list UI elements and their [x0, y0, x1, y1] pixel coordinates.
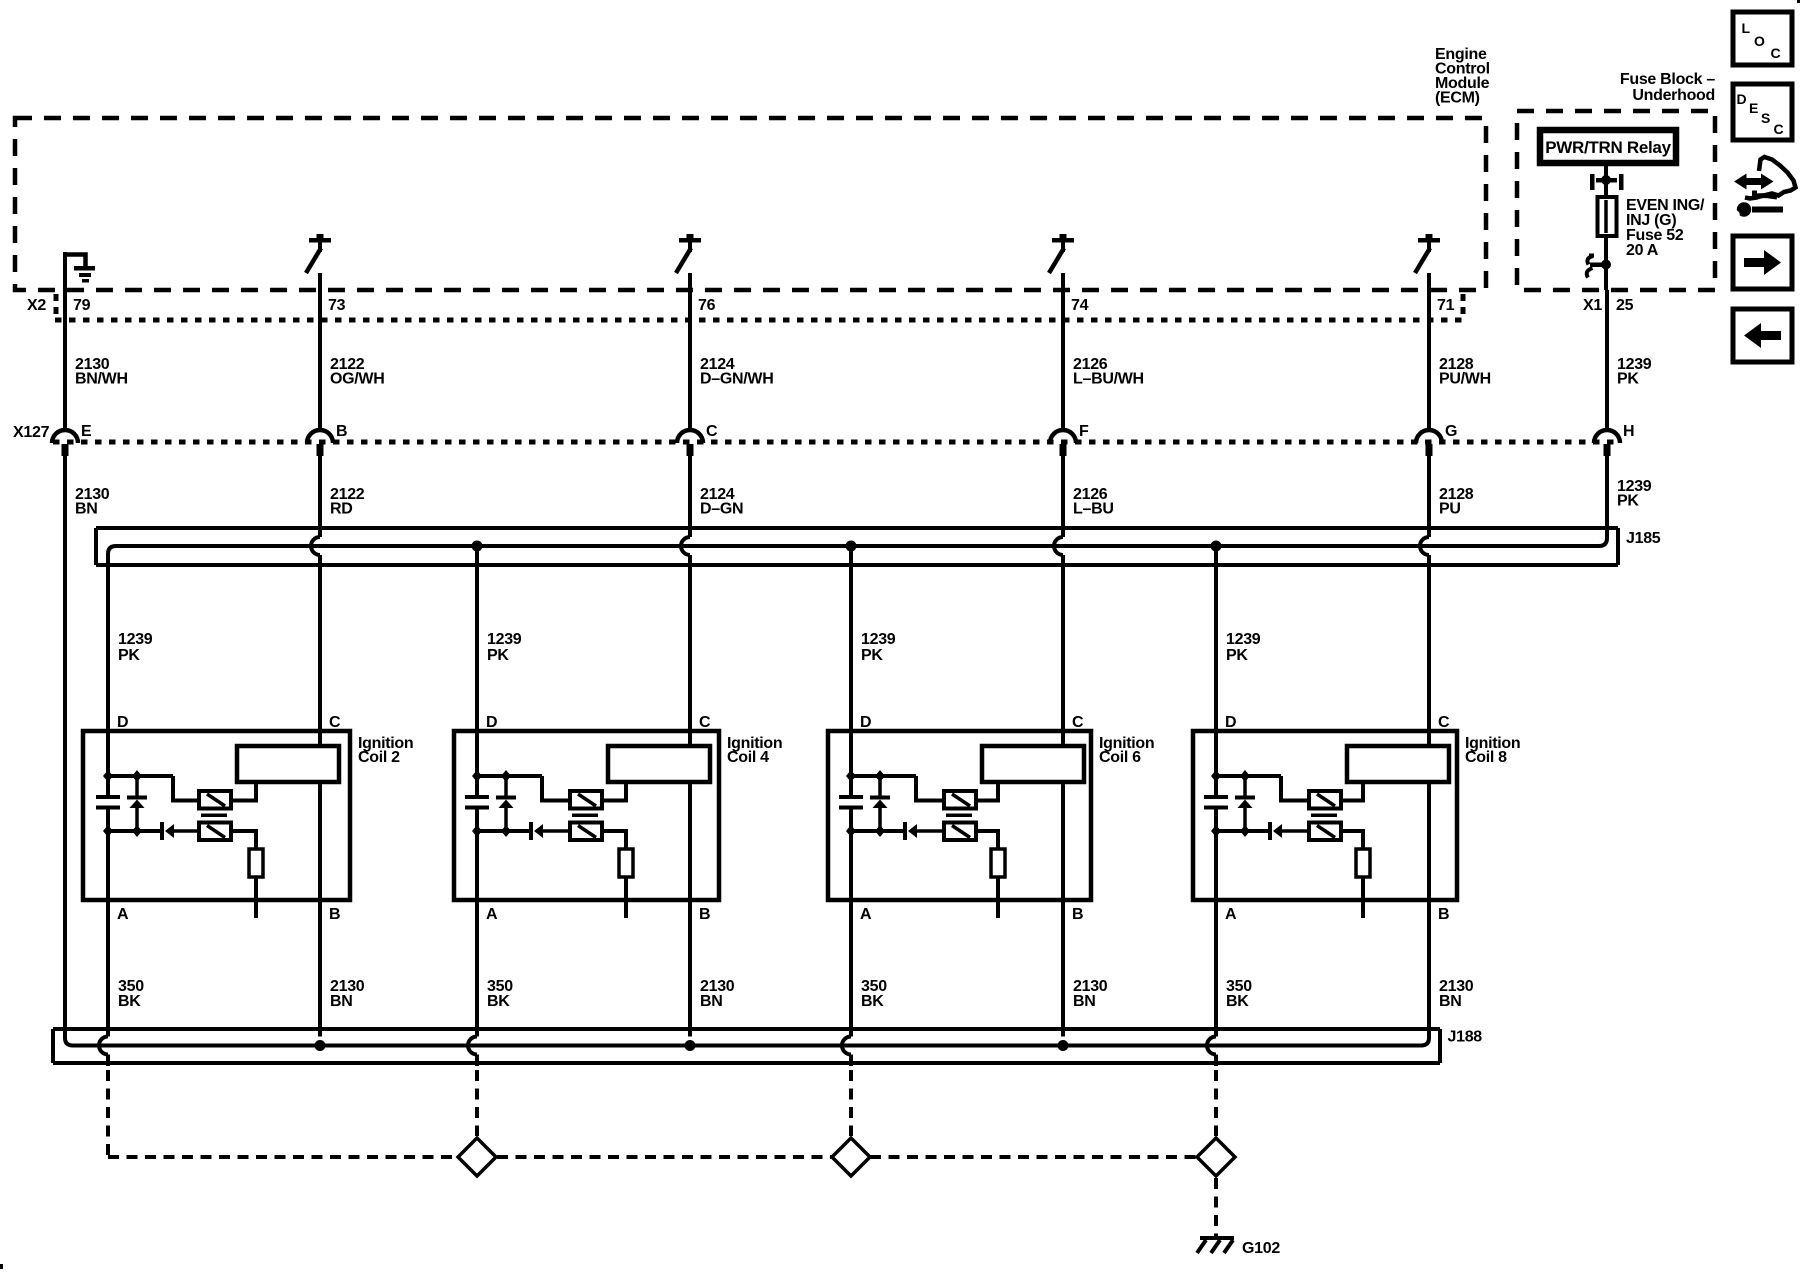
coil 2 upper winding output to primary: [231, 782, 256, 801]
connector X127 dotted line: [53, 440, 1617, 445]
wire (circuit to connector X127), x=1429: [1427, 273, 1431, 431]
coil 8 primary winding: [1347, 746, 1449, 782]
svg-text:C: C: [1774, 121, 1784, 137]
svg-text:J185: J185: [1626, 530, 1661, 547]
svg-text:BN: BN: [1439, 993, 1462, 1010]
svg-text:E: E: [1749, 100, 1758, 116]
coil 8 resistor: [1356, 849, 1370, 877]
coil 4 diode: [529, 822, 533, 840]
dashed wire between splices S1-S2: [497, 1155, 832, 1159]
coil 2 high voltage output stub: [254, 877, 258, 918]
svg-text:B: B: [336, 423, 347, 440]
icon box DESC: [1733, 84, 1792, 140]
svg-text:1239: 1239: [1226, 631, 1261, 648]
svg-text:PK: PK: [861, 647, 883, 664]
coil 6 capacitor: [849, 776, 853, 797]
ECM internal ground (pin 79): [65, 255, 95, 283]
coil 2 lower winding output to resistor: [231, 831, 256, 849]
wire (circuit to connector X127), x=320: [318, 273, 322, 431]
X127 pin B: [307, 423, 347, 456]
coil 2 driver transformer lower winding: [199, 823, 231, 841]
coil 4 capacitor: [475, 776, 479, 797]
coil 8 internal node row 1: [1216, 774, 1281, 778]
wire 1239 PK from J185 to coil 6 pin D: [849, 546, 853, 776]
X127 pin E: [52, 423, 92, 456]
relay output bracket: [1590, 163, 1624, 196]
wire hop over J188 bus at x=1216: [1207, 1037, 1216, 1055]
dashed 350 BK wire from coil 2 pin A: [106, 1070, 110, 1155]
X2 / X1 pin labels: [27, 297, 1634, 314]
svg-text:D: D: [486, 714, 497, 731]
svg-text:PK: PK: [487, 647, 509, 664]
wire (circuit to connector X127), x=690: [688, 273, 692, 431]
wire segment through J188 bottom at x=1216: [1214, 1055, 1218, 1067]
svg-text:OG/WH: OG/WH: [330, 371, 385, 388]
coil 6 upper winding output to primary: [976, 782, 998, 801]
svg-text:20 A: 20 A: [1626, 242, 1659, 259]
dashed wire between splices S2-S3: [870, 1155, 1197, 1159]
coil 4 lower winding output to resistor: [602, 831, 626, 849]
svg-text:79: 79: [73, 297, 91, 314]
svg-text:G: G: [1445, 423, 1457, 440]
wire from J185 hop to coil 4 pin C: [688, 555, 692, 748]
splice junction J185 at x=1216: [1211, 541, 1222, 552]
coil 8 box: [1193, 731, 1457, 900]
coil 2 transformer core: [201, 814, 227, 818]
ECM label: [1435, 46, 1490, 107]
svg-text:PU: PU: [1439, 501, 1461, 518]
Fuse Block - Underhood dashed box: [1517, 111, 1715, 290]
fuse EVEN ING/INJ (G) Fuse 52 20A: [1598, 196, 1617, 258]
svg-text:PK: PK: [1617, 493, 1639, 510]
splice junction J188 at x=1063: [1058, 1040, 1069, 1051]
svg-text:PWR/TRN Relay: PWR/TRN Relay: [1545, 138, 1671, 157]
icon box LOC: [1733, 12, 1792, 65]
svg-text:BK: BK: [487, 993, 510, 1010]
svg-text:PK: PK: [1226, 647, 1248, 664]
svg-text:G102: G102: [1242, 1240, 1280, 1257]
svg-text:Coil 4: Coil 4: [727, 749, 769, 766]
wire from J185 hop to coil 6 pin C: [1061, 555, 1065, 748]
coil 8 lower winding output to resistor: [1341, 831, 1363, 849]
wire 350 BK coil 4 pin A to J188 hop: [475, 831, 479, 1037]
svg-text:Underhood: Underhood: [1632, 87, 1715, 104]
svg-text:BN/WH: BN/WH: [75, 371, 128, 388]
wire 1239 PK from J185 to coil 4 pin D: [475, 546, 479, 776]
wire hop over J188 bus at x=108: [99, 1037, 108, 1055]
Engine Control Module (ECM) dashed box: [15, 118, 1486, 290]
svg-text:PK: PK: [118, 647, 140, 664]
svg-text:Fuse Block –: Fuse Block –: [1620, 71, 1716, 88]
coil 2 box: [83, 731, 350, 900]
splice junction J188 at x=320: [315, 1040, 326, 1051]
svg-text:S: S: [1761, 110, 1770, 126]
coil 6 primary winding: [982, 746, 1084, 782]
coil 2 diode: [160, 822, 164, 840]
coil 6 driver transformer lower winding: [944, 823, 976, 841]
splice diamond at coil8 branch: [1197, 1138, 1235, 1176]
wire x=690 X127 to J185 hop: [688, 456, 692, 537]
svg-text:X127: X127: [13, 424, 50, 441]
wire labels row (350 BK / 2130 BN): [118, 978, 1474, 1010]
coil 4 driver transformer upper winding: [542, 776, 570, 801]
wire 350 BK coil 2 pin A to J188 hop: [106, 831, 110, 1037]
dashed 350 BK wire from coil 4 pin A: [475, 1070, 479, 1136]
coil 2 primary winding: [237, 746, 339, 782]
coil 8 high voltage output stub: [1361, 877, 1365, 918]
coil 6 box: [828, 731, 1091, 900]
svg-text:J188: J188: [1448, 1029, 1483, 1046]
wire x=320 X127 to J185 hop: [318, 456, 322, 537]
svg-text:L–BU/WH: L–BU/WH: [1073, 371, 1144, 388]
wire 2130 BN, x=65 (to J188): [63, 456, 67, 1038]
coil 4 driver transformer lower winding: [570, 823, 602, 841]
connector X2 dotted line: [55, 318, 1463, 323]
wire 1239 PK x=1607 X127 to J185: [1605, 456, 1609, 538]
svg-text:L–BU: L–BU: [1073, 501, 1114, 518]
svg-text:H: H: [1623, 423, 1634, 440]
svg-text:D: D: [1225, 714, 1236, 731]
svg-text:25: 25: [1616, 297, 1634, 314]
svg-text:BK: BK: [118, 993, 141, 1010]
coil 8 internal node row 2: [1216, 829, 1270, 833]
coil 2 driver transformer upper winding: [173, 776, 199, 801]
coil 6 secondary wire pin C through winding: [1061, 782, 1065, 1037]
coil 2 internal node row 1: [108, 774, 173, 778]
coil 8 driver transformer upper winding: [1281, 776, 1309, 801]
svg-text:73: 73: [328, 297, 346, 314]
coil 2 zener diode: [127, 796, 147, 800]
stray mark bottom left: [0, 1264, 3, 1269]
svg-text:71: 71: [1437, 297, 1455, 314]
ignition coil 6 assembly: [828, 546, 1154, 1037]
wire hop over J185 bus at x=320: [311, 537, 320, 555]
coil 6 internal node row 1: [851, 774, 916, 778]
svg-text:C: C: [1771, 45, 1781, 61]
svg-text:PU/WH: PU/WH: [1439, 371, 1491, 388]
coil 6 zener diode: [870, 796, 890, 800]
wire labels row (below X127): [75, 478, 1652, 518]
fuse output hook symbol: [1587, 237, 1611, 290]
svg-text:BN: BN: [330, 993, 353, 1010]
svg-text:D–GN: D–GN: [700, 501, 743, 518]
coil 4 transformer core: [572, 814, 598, 818]
svg-text:Coil 8: Coil 8: [1465, 749, 1507, 766]
svg-text:1239: 1239: [861, 631, 896, 648]
wire from J185 hop to coil 8 pin C: [1427, 555, 1431, 748]
PWR/TRN Relay box: [1540, 130, 1676, 163]
coil 4 box: [454, 731, 719, 900]
wire 350 BK coil 6 pin A to J188 hop: [849, 831, 853, 1037]
svg-text:BK: BK: [1226, 993, 1249, 1010]
X127 pin F: [1050, 423, 1089, 456]
svg-text:A: A: [860, 906, 872, 923]
X127 pin H: [1594, 423, 1634, 456]
X127 pin C: [677, 423, 718, 456]
wire (circuit to connector X127), x=1063: [1061, 273, 1065, 431]
coil 4 zener diode: [496, 796, 516, 800]
splice junction J185 at x=851: [846, 541, 857, 552]
svg-text:(ECM): (ECM): [1435, 90, 1480, 107]
stray mark top right corner: [1797, 0, 1800, 3]
svg-text:BN: BN: [700, 993, 723, 1010]
coil 6 diode: [903, 822, 907, 840]
ignition coil 2 assembly: [83, 554, 413, 1037]
splice junction J185 at x=477: [472, 541, 483, 552]
svg-text:X2: X2: [27, 297, 46, 314]
svg-text:RD: RD: [330, 501, 353, 518]
coil 6 transformer core: [946, 814, 972, 818]
svg-text:C: C: [706, 423, 718, 440]
coil 2 secondary wire pin C through winding: [318, 782, 322, 1037]
ECM driver switch contact (pin wire x=690): [679, 238, 701, 243]
wire hop over J185 bus at x=1429: [1420, 537, 1429, 555]
J188 internal 2130 BN bus wire: [65, 1038, 1429, 1046]
svg-text:PK: PK: [1617, 371, 1639, 388]
svg-text:1239: 1239: [118, 631, 153, 648]
ECM driver switch contact (pin wire x=320): [309, 238, 331, 243]
coil 6 internal node row 2: [851, 829, 905, 833]
ECM driver switch contact (pin wire x=1063): [1052, 238, 1074, 243]
coil 4 upper winding output to primary: [602, 782, 626, 801]
svg-text:B: B: [329, 906, 340, 923]
svg-text:C: C: [1072, 714, 1084, 731]
svg-text:O: O: [1754, 33, 1765, 49]
svg-text:Coil 6: Coil 6: [1099, 749, 1141, 766]
wire labels row (circuit / color above X127): [75, 356, 1652, 388]
splice diamond at coil6 branch: [832, 1138, 870, 1176]
svg-text:C: C: [699, 714, 711, 731]
J185 internal 1239 PK bus wire: [108, 538, 1607, 554]
wire (circuit to connector X127), x=1607: [1605, 290, 1609, 431]
wire 350 BK coil 8 pin A to J188 hop: [1214, 831, 1218, 1037]
svg-text:D: D: [1737, 91, 1747, 107]
coil 8 zener diode: [1235, 796, 1255, 800]
coil 8 upper winding output to primary: [1341, 782, 1363, 801]
svg-text:Coil 2: Coil 2: [358, 749, 400, 766]
X2 end ticks: [54, 294, 59, 316]
svg-text:A: A: [1225, 906, 1237, 923]
wire segment through J188 bottom at x=108: [106, 1055, 110, 1067]
wire hop over J185 bus at x=690: [681, 537, 690, 555]
svg-text:BN: BN: [75, 501, 98, 518]
ground G102 symbol: [1197, 1236, 1234, 1253]
svg-text:1239: 1239: [487, 631, 522, 648]
ECM driver switch contact (pin wire x=1429): [1418, 238, 1440, 243]
Fuse Block label: [1620, 71, 1716, 104]
coil 6 resistor: [991, 849, 1005, 877]
wire segment through J188 bottom at x=477: [475, 1055, 479, 1067]
wire from J185 hop to coil 2 pin C: [318, 555, 322, 748]
svg-text:F: F: [1079, 423, 1089, 440]
svg-text:B: B: [699, 906, 710, 923]
X127 pin G: [1416, 423, 1457, 456]
wire 1239 PK from J185 to coil 2 pin D: [106, 554, 110, 776]
harness/double-arrow icon: [1731, 157, 1795, 219]
coil 6 high voltage output stub: [996, 877, 1000, 918]
svg-text:C: C: [1438, 714, 1450, 731]
coil 6 driver transformer upper winding: [916, 776, 944, 801]
svg-text:A: A: [117, 906, 129, 923]
wire hop over J188 bus at x=477: [468, 1037, 477, 1055]
coil 6 lower winding output to resistor: [976, 831, 998, 849]
wire x=1063 X127 to J185 hop: [1061, 456, 1065, 537]
coil 8 capacitor: [1214, 776, 1218, 797]
coil 8 driver transformer lower winding: [1309, 823, 1341, 841]
wire hop over J188 bus at x=851: [842, 1037, 851, 1055]
svg-text:L: L: [1742, 20, 1751, 36]
svg-text:B: B: [1072, 906, 1083, 923]
svg-text:X1: X1: [1583, 297, 1602, 314]
coil 8 secondary wire pin C through winding: [1427, 782, 1431, 1038]
svg-text:76: 76: [698, 297, 716, 314]
splice junction J188 at x=690: [685, 1040, 696, 1051]
splice diamond at coil4 branch: [458, 1138, 496, 1176]
ignition coil 4 assembly: [454, 546, 782, 1037]
svg-text:BN: BN: [1073, 993, 1096, 1010]
dashed wire splice to ground G102: [1214, 1178, 1218, 1236]
svg-text:D–GN/WH: D–GN/WH: [700, 371, 773, 388]
splice pack J188 outline: [53, 1029, 1440, 1063]
coil 8 diode: [1268, 822, 1272, 840]
wire (circuit to connector X127), x=65: [63, 252, 67, 431]
dashed 350 BK wire from coil 6 pin A: [849, 1070, 853, 1136]
coil 4 internal node row 2: [477, 829, 531, 833]
svg-text:C: C: [329, 714, 341, 731]
ignition coil 8 assembly: [1193, 546, 1520, 1038]
svg-text:74: 74: [1071, 297, 1089, 314]
fuse label: [1626, 197, 1705, 259]
wire hop over J185 bus at x=1063: [1054, 537, 1063, 555]
splice pack J185 outline: [96, 528, 1618, 565]
coil 4 high voltage output stub: [624, 877, 628, 918]
svg-text:D: D: [117, 714, 128, 731]
icon box left arrow: [1733, 309, 1792, 362]
coil 2 internal node row 2: [108, 829, 162, 833]
svg-text:BK: BK: [861, 993, 884, 1010]
coil 4 resistor: [619, 849, 633, 877]
wire 1239 PK from J185 to coil 8 pin D: [1214, 546, 1218, 776]
coil 4 primary winding: [608, 746, 710, 782]
icon box right arrow: [1733, 236, 1792, 289]
svg-text:B: B: [1438, 906, 1449, 923]
wire x=1429 X127 to J185 hop: [1427, 456, 1431, 537]
svg-text:E: E: [81, 423, 92, 440]
svg-text:A: A: [486, 906, 498, 923]
wire segment through J188 bottom at x=851: [849, 1055, 853, 1067]
svg-text:D: D: [860, 714, 871, 731]
coil 4 secondary wire pin C through winding: [688, 782, 692, 1037]
coil 8 transformer core: [1311, 814, 1337, 818]
1239 PK branch labels: [118, 631, 1261, 664]
dashed 350 BK wire from coil 8 pin A: [1214, 1070, 1218, 1136]
coil 2 capacitor: [106, 776, 110, 797]
coil 4 internal node row 1: [477, 774, 542, 778]
coil 2 resistor: [249, 849, 263, 877]
